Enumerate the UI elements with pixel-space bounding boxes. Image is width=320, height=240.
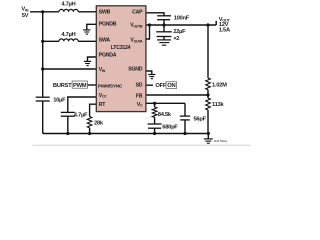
svg-text:680pF: 680pF xyxy=(162,124,178,130)
svg-text:SD: SD xyxy=(136,83,143,89)
svg-text:LTC3124: LTC3124 xyxy=(111,45,131,51)
svg-text:SGND: SGND xyxy=(128,66,142,72)
svg-text:5V: 5V xyxy=(22,13,29,19)
svg-text:28k: 28k xyxy=(94,121,104,127)
svg-text:BURST: BURST xyxy=(53,83,72,89)
svg-text:4.7µF: 4.7µF xyxy=(74,112,88,118)
svg-text:113k: 113k xyxy=(212,102,224,108)
svg-text:PGNDA: PGNDA xyxy=(99,53,117,59)
svg-text:VIN: VIN xyxy=(21,7,28,13)
svg-text:VCC: VCC xyxy=(99,93,107,99)
svg-text:RT: RT xyxy=(99,102,106,108)
svg-text:100nF: 100nF xyxy=(174,15,190,21)
svg-text:×2: ×2 xyxy=(173,36,179,42)
svg-text:PGNDB: PGNDB xyxy=(99,21,117,27)
svg-text:10µF: 10µF xyxy=(53,98,66,104)
svg-text:CAP: CAP xyxy=(132,9,143,15)
svg-text:SWA: SWA xyxy=(99,37,111,43)
svg-text:84.5k: 84.5k xyxy=(158,112,172,118)
svg-text:3124 TA01a: 3124 TA01a xyxy=(214,139,228,143)
svg-text:VOUTB: VOUTB xyxy=(130,23,143,29)
svg-text:56pF: 56pF xyxy=(194,117,207,123)
svg-text:1.02M: 1.02M xyxy=(212,82,227,88)
svg-text:VIN: VIN xyxy=(99,67,106,73)
svg-text:PWM/SYNC: PWM/SYNC xyxy=(98,84,123,90)
svg-text:22µF: 22µF xyxy=(173,29,186,35)
svg-text:VC: VC xyxy=(137,102,143,108)
svg-text:4.7µH: 4.7µH xyxy=(61,2,75,8)
svg-text:SWB: SWB xyxy=(99,9,111,15)
svg-text:FB: FB xyxy=(136,94,143,100)
svg-text:VOUTA: VOUTA xyxy=(130,38,143,44)
svg-text:4.7µH: 4.7µH xyxy=(61,32,75,38)
svg-text:OFF: OFF xyxy=(155,83,166,89)
svg-text:1.5A: 1.5A xyxy=(219,28,231,34)
